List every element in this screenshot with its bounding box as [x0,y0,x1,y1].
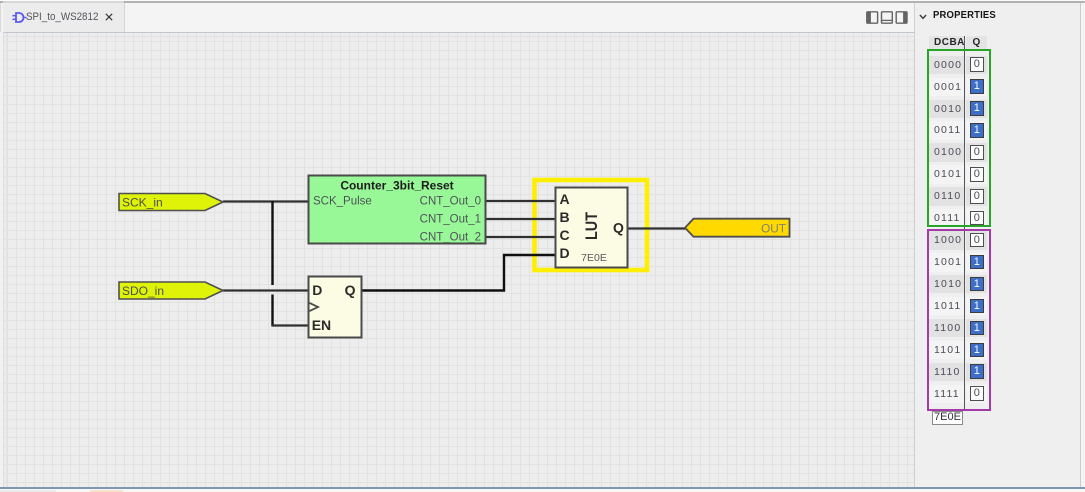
input port SCK_in [119,194,223,211]
svg-text:Counter_3bit_Reset: Counter_3bit_Reset [340,179,453,193]
wire LUT Q to OUT port [628,227,686,229]
truth table row 0010 [929,100,964,119]
truth table row 1110 [929,363,964,382]
svg-text:SDO_in: SDO_in [122,284,164,298]
svg-text:OUT: OUT [761,222,786,236]
bottom sliver below canvas [0,489,1085,492]
canvas bottom border [0,487,1085,489]
svg-text:CNT_Out_0: CNT_Out_0 [420,196,481,208]
truth table row 0110 [929,187,964,206]
svg-text:B: B [560,209,570,225]
wire SDO_in to D [222,289,308,291]
table column divider [964,36,965,409]
truth table row 1001 [929,253,964,272]
wire CNT_Out_0 to LUT A [486,200,555,202]
wire vertical branch upper [271,201,273,285]
truth table row 0111 [929,209,964,228]
truth table row 0011 [929,121,964,140]
wire branch to EN [272,324,309,326]
svg-text:D: D [312,282,322,298]
active tab SPI_to_WS2812 [3,3,125,32]
wire CNT_Out_1 to LUT B [486,218,555,220]
wire SCK_in to counter SCK_Pulse [223,200,308,202]
input port SDO_in [119,282,223,299]
LUT hex value box 7E0E [932,411,963,425]
D flip-flop U2 [309,277,362,338]
svg-text:SCK_Pulse: SCK_Pulse [313,196,372,208]
purple group box rows 1000-1111 [927,229,991,410]
tab close x [105,13,113,21]
svg-text:CNT_Out_2: CNT_Out_2 [420,232,481,244]
properties panel background [915,3,1085,487]
truth table row 1011 [929,297,964,316]
svg-text:Q: Q [613,220,624,236]
svg-text:A: A [560,191,570,207]
truth table row 1101 [929,341,964,360]
truth table row 0001 [929,78,964,97]
properties title [933,10,996,21]
truth table row 0100 [929,143,964,162]
svg-text:C: C [560,227,570,243]
truth table row 1010 [929,275,964,294]
green group box rows 0000-0111 [927,49,991,228]
layout toggle icons top right [866,11,908,24]
block Counter_3bit_Reset [309,176,486,244]
properties chevron [919,14,927,20]
svg-text:7E0E: 7E0E [581,252,607,264]
LUT U1 [556,188,628,268]
svg-text:SCK_in: SCK_in [122,196,163,210]
lighter top border over active tab [3,1,124,3]
wire DFF Q to LUT D [362,255,556,291]
svg-text:CNT_Out_1: CNT_Out_1 [420,214,481,226]
truth table row 0000 [929,56,964,75]
svg-text:D: D [560,245,570,261]
truth table row 1111 [929,385,964,404]
wire CNT_Out_2 to LUT C [486,236,555,238]
truth table row 0101 [929,165,964,184]
svg-text:LUT: LUT [583,212,601,240]
tab gate icon [12,12,27,23]
tab bar [0,3,915,32]
output port OUT [685,219,790,237]
wire vertical branch lower [271,295,273,327]
truth table row 1100 [929,319,964,338]
svg-text:EN: EN [312,317,331,333]
canvas with grid [3,32,914,488]
yellow selection highlight around LUT [535,180,648,270]
truth table row 1000 [929,231,964,250]
table header DCBA/Q [929,36,964,49]
window top border [0,0,1085,1]
svg-text:Q: Q [345,282,356,298]
